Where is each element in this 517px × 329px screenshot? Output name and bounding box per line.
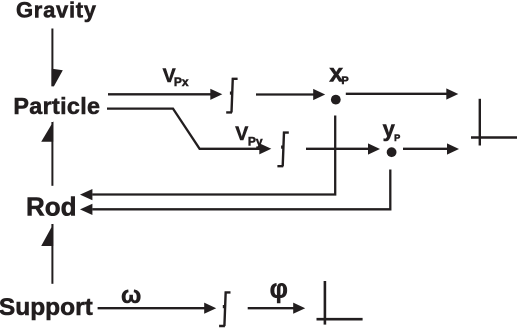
svg-text:φ: φ bbox=[270, 276, 288, 304]
svg-text:Px: Px bbox=[174, 75, 189, 89]
svg-text:P: P bbox=[394, 133, 400, 143]
svg-text:Particle: Particle bbox=[13, 93, 100, 119]
svg-text:Rod: Rod bbox=[26, 192, 77, 222]
svg-text:Py: Py bbox=[248, 134, 263, 148]
svg-text:Gravity: Gravity bbox=[16, 0, 97, 22]
svg-text:ω: ω bbox=[121, 282, 141, 309]
svg-text:Support: Support bbox=[0, 294, 93, 321]
svg-text:P: P bbox=[341, 75, 348, 87]
svg-text:V: V bbox=[235, 123, 248, 145]
